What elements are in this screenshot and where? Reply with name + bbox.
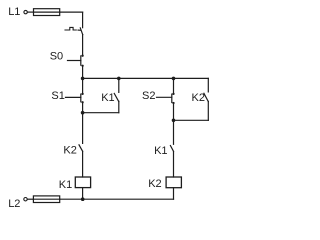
wire coil K2 to bottom bus bbox=[173, 188, 175, 200]
node C junction bbox=[172, 119, 176, 123]
wire node A down to S1 bbox=[82, 78, 84, 93]
svg-text:K1: K1 bbox=[59, 179, 72, 191]
node junction K1 branch top bbox=[117, 77, 121, 81]
contact K1 blade (right lower) bbox=[170, 146, 173, 152]
wire top corner down to switch Q1 bbox=[82, 12, 84, 28]
pushbutton S0 actuator bbox=[68, 60, 81, 62]
terminal L2 bbox=[24, 198, 27, 201]
svg-text:K2: K2 bbox=[63, 144, 76, 156]
wire S2 branch from top bus bbox=[173, 78, 175, 93]
fuse F1 bbox=[34, 9, 60, 16]
svg-text:S1: S1 bbox=[51, 90, 64, 102]
wire node C down to contact K1 bbox=[173, 120, 175, 144]
svg-text:K2: K2 bbox=[192, 92, 205, 104]
node junction bottom bus bbox=[81, 197, 85, 201]
node B junction bbox=[81, 111, 85, 115]
bottom bus wire bbox=[60, 198, 174, 200]
node A junction bbox=[81, 77, 85, 81]
pushbutton S1 blade bbox=[80, 94, 82, 102]
wire L1 terminal to fuse F1 bbox=[27, 11, 33, 13]
svg-text:S2: S2 bbox=[142, 90, 155, 102]
coil K1 bbox=[75, 177, 90, 188]
svg-text:S0: S0 bbox=[50, 51, 63, 63]
pushbutton S0 contact dots bbox=[81, 55, 83, 57]
svg-text:K1: K1 bbox=[154, 145, 167, 157]
wire contact K1 to connector bbox=[118, 101, 120, 112]
pushbutton S1 actuator bbox=[66, 96, 81, 98]
wire contact K1 to coil K2 bbox=[173, 152, 175, 177]
switch Q1 blade bbox=[80, 28, 82, 35]
wire connector node B to K1 branch bbox=[83, 112, 119, 114]
switch Q1 push actuator bbox=[65, 27, 76, 30]
pushbutton S2 blade bbox=[171, 94, 173, 102]
wire S0 to node A bbox=[82, 66, 84, 79]
wire contact K2 to connector bbox=[207, 101, 209, 120]
wire S1 to node B bbox=[82, 102, 84, 112]
pushbutton S2 actuator bbox=[157, 96, 172, 98]
coil K2 bbox=[166, 177, 181, 188]
wire top bus node A to K2 branch corner bbox=[83, 77, 209, 79]
terminal L1 bbox=[24, 10, 27, 13]
svg-text:L2: L2 bbox=[8, 198, 20, 210]
wire coil K1 to bottom bus bbox=[82, 188, 84, 200]
pushbutton S1 contact dots bbox=[81, 93, 83, 95]
wire switch Q1 to S0 bbox=[82, 35, 84, 56]
wire K1 branch from top bus bbox=[118, 78, 120, 92]
wire node B down to contact K2 bbox=[82, 113, 84, 144]
wire L2 terminal to fuse F2 bbox=[27, 198, 33, 200]
svg-text:K1: K1 bbox=[101, 92, 114, 104]
wire K2 branch from top bus corner bbox=[207, 78, 209, 92]
contact K2 blade (left) bbox=[79, 145, 83, 152]
contact K1 blade bbox=[114, 94, 119, 102]
wire fuse F1 to top corner bbox=[60, 11, 83, 13]
svg-text:K2: K2 bbox=[148, 178, 161, 190]
svg-text:L1: L1 bbox=[8, 6, 20, 18]
contact K2 blade (right) bbox=[204, 93, 208, 101]
wire contact K2 to coil K1 bbox=[82, 151, 84, 177]
fuse F2 bbox=[33, 196, 59, 203]
wire S2 to node C bbox=[173, 103, 175, 120]
node junction S2 branch top bbox=[172, 77, 176, 81]
wire connector node C to K2 branch bbox=[174, 119, 209, 121]
pushbutton S2 contact dots bbox=[172, 93, 174, 95]
pushbutton S0 blade bbox=[80, 56, 82, 65]
